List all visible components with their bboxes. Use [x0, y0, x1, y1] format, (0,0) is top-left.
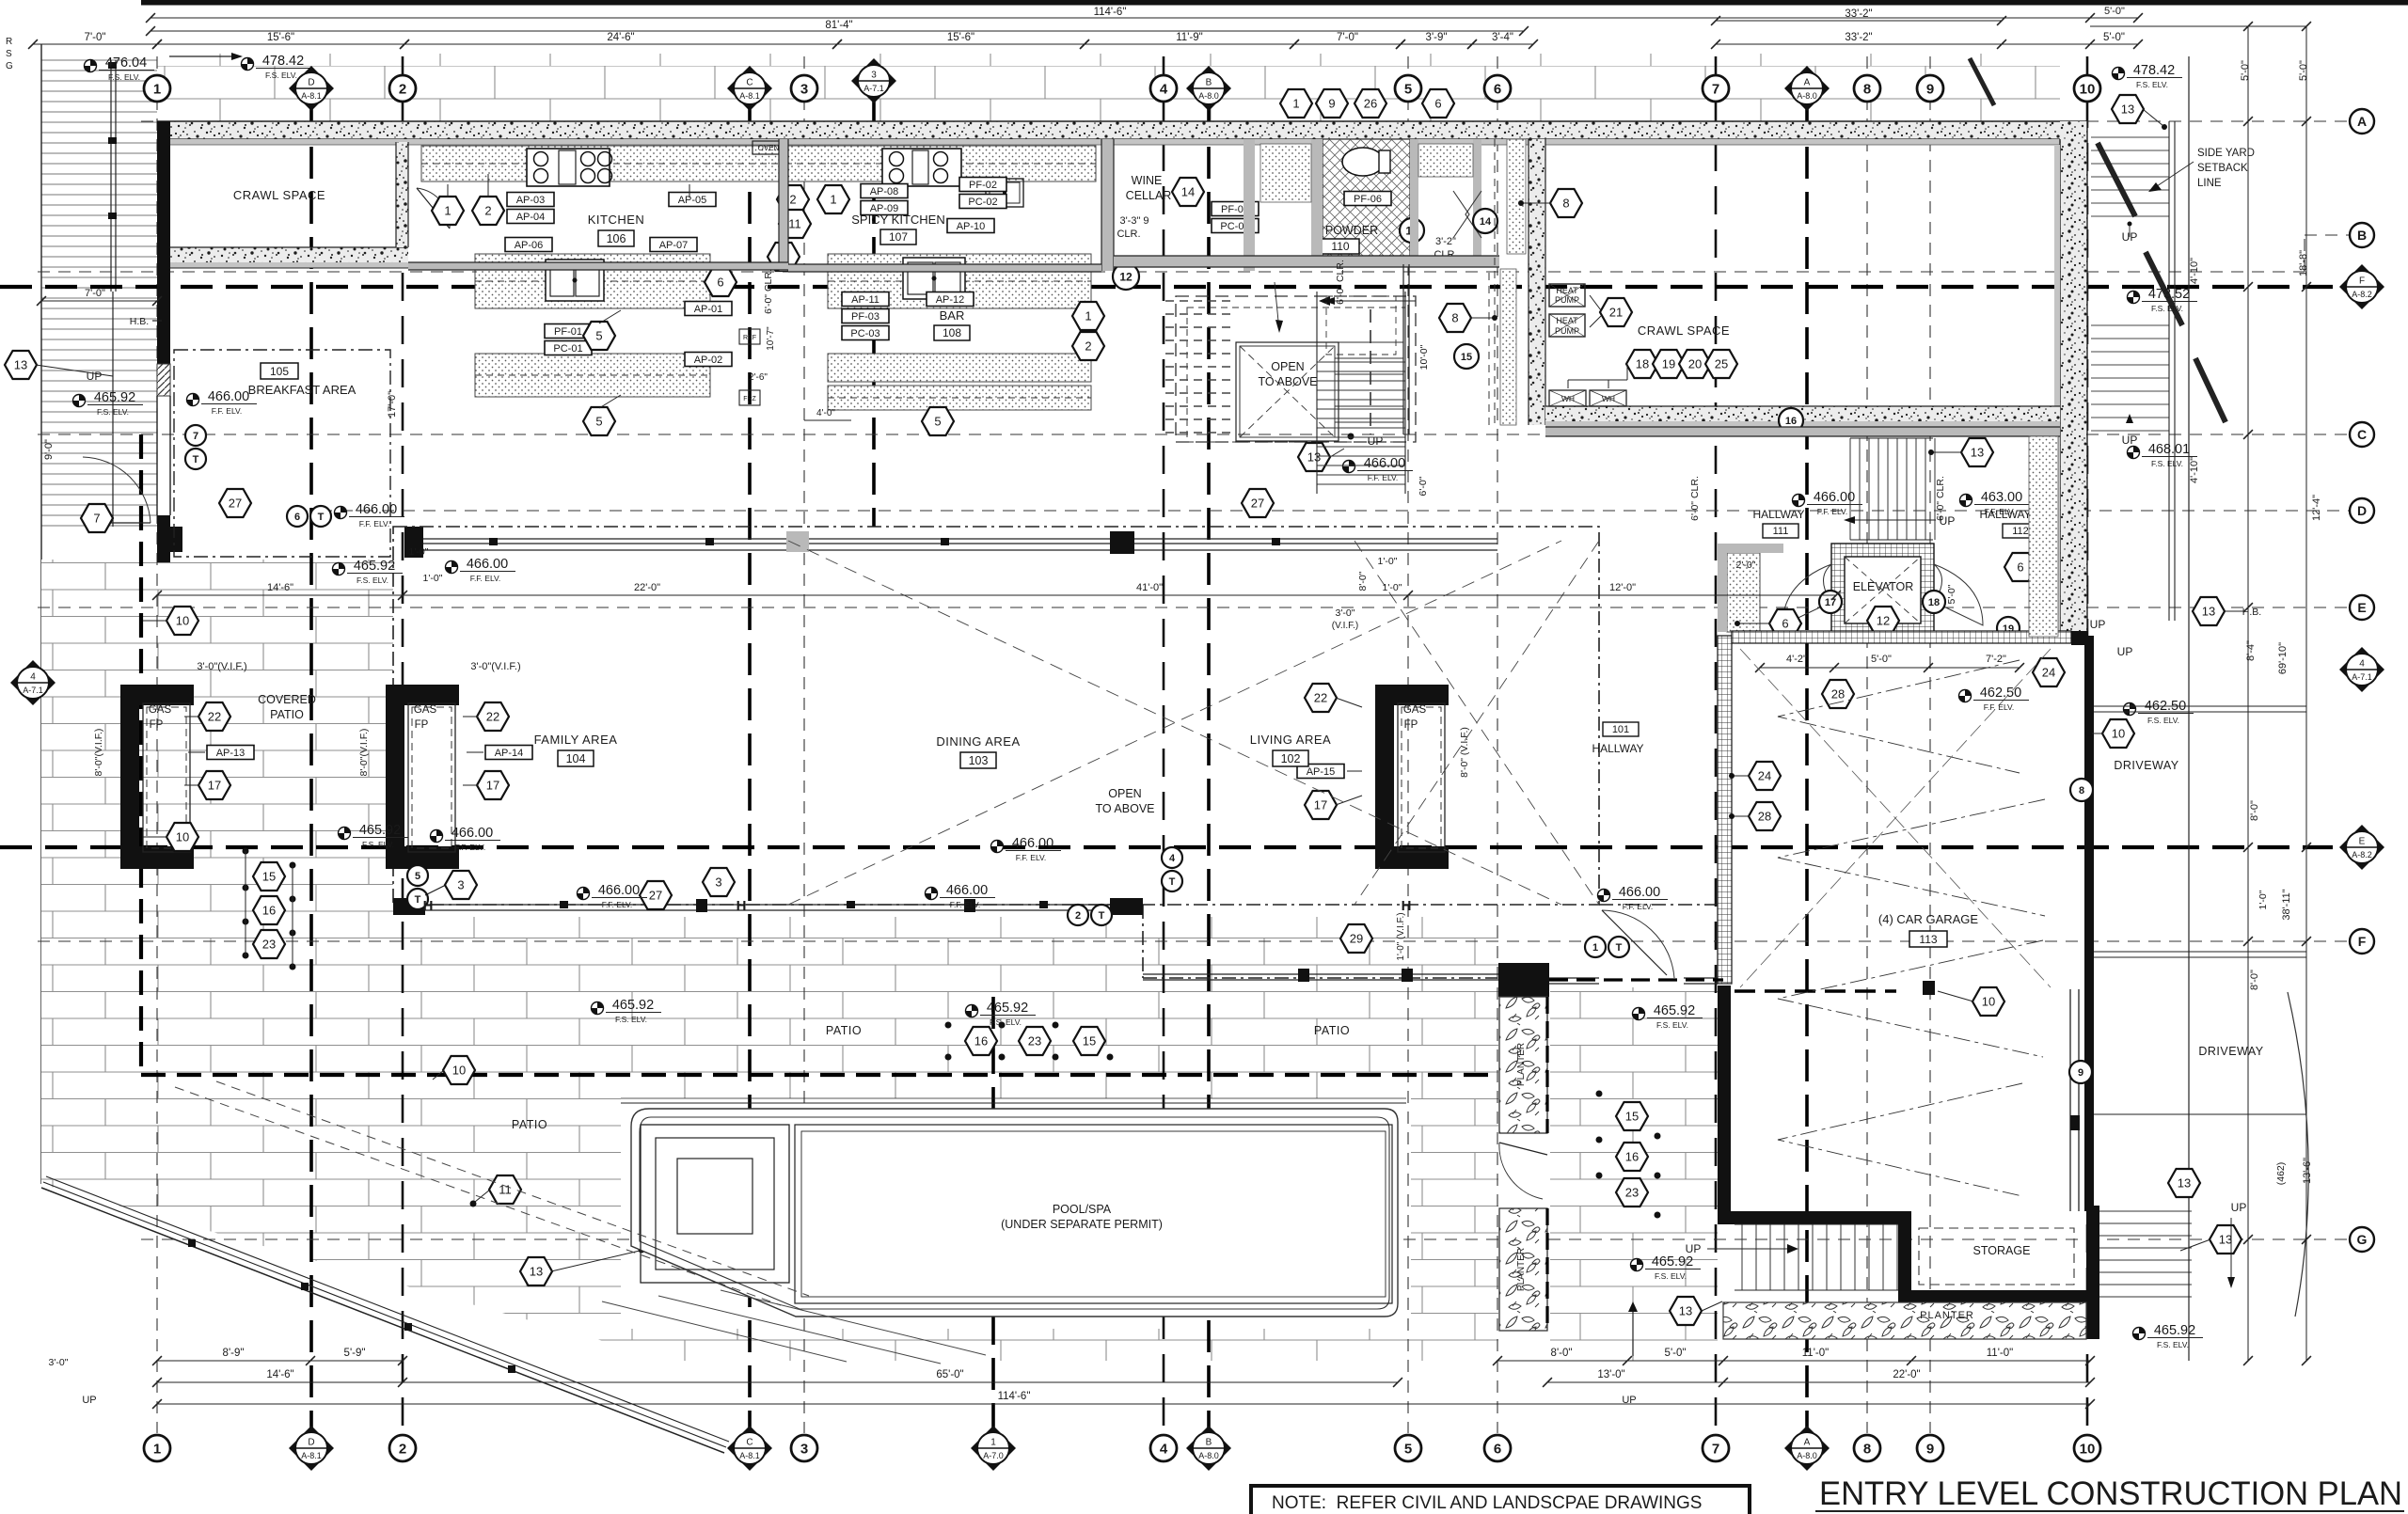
svg-text:AP-12: AP-12 — [936, 294, 965, 306]
svg-text:5'-0": 5'-0" — [1871, 654, 1892, 665]
svg-text:7'-2": 7'-2" — [1986, 654, 2006, 665]
hex keynote 21 — [1600, 298, 1632, 326]
wall stub SE — [1549, 977, 1599, 979]
svg-text:7: 7 — [1712, 82, 1719, 98]
planter column top — [1499, 997, 1547, 1133]
patio hex chain — [965, 1027, 997, 1055]
planter heavy dash boundary — [1545, 997, 1548, 1133]
svg-text:22: 22 — [208, 710, 221, 724]
fp3 keynotes — [1305, 684, 1337, 712]
svg-text:33'-2": 33'-2" — [1845, 8, 1872, 20]
svg-text:466.00: 466.00 — [1814, 490, 1855, 505]
black column SE living — [1110, 531, 1134, 554]
elev 465.92 patio1 — [592, 998, 662, 1024]
entry door SE — [1602, 910, 1674, 978]
svg-text:AP-13: AP-13 — [216, 748, 246, 759]
svg-text:3'-4": 3'-4" — [1492, 32, 1513, 43]
section line E/A-8.2 (horizontal) — [0, 845, 2333, 849]
keynote boxes PF-01/PC-01 — [545, 324, 592, 339]
svg-text:F: F — [2359, 276, 2365, 287]
svg-text:S: S — [6, 49, 12, 59]
svg-text:7: 7 — [193, 431, 198, 442]
svg-text:112: 112 — [2012, 526, 2029, 537]
fp1 keynotes — [198, 702, 230, 731]
svg-text:10: 10 — [2080, 1442, 2096, 1458]
svg-text:3: 3 — [800, 82, 808, 98]
grid bubble 2 top — [389, 75, 416, 102]
svg-text:24: 24 — [1758, 769, 1771, 783]
garage left wall black — [1718, 986, 1731, 1222]
svg-text:F.F. ELV.: F.F. ELV. — [1623, 902, 1654, 911]
svg-text:1: 1 — [830, 193, 836, 207]
grid row G — [141, 1238, 2349, 1240]
section line B/A-8.0 (vertical) — [1207, 102, 1211, 1433]
svg-text:UP: UP — [2231, 1201, 2247, 1214]
dashed grading diagonals — [175, 1087, 781, 1305]
elev 465.92 mid-left — [333, 559, 404, 585]
svg-text:4: 4 — [1160, 1442, 1168, 1458]
svg-text:9: 9 — [2078, 1067, 2083, 1079]
hex 3b mid — [703, 868, 735, 896]
svg-text:5'-9": 5'-9" — [344, 1348, 366, 1359]
svg-text:5'-0": 5'-0" — [2298, 60, 2309, 81]
svg-text:466.00: 466.00 — [451, 826, 493, 841]
grid line 5 (vertical) — [1407, 56, 1409, 1433]
svg-text:5: 5 — [595, 329, 602, 343]
svg-text:13: 13 — [2219, 1233, 2232, 1247]
living area lower boundary — [1142, 905, 1144, 978]
svg-text:10: 10 — [2080, 82, 2096, 98]
svg-text:AP-08: AP-08 — [870, 186, 899, 197]
hex keynote 6b (hall right) — [2004, 553, 2036, 581]
storage bottom wall black — [1898, 1290, 2099, 1302]
grid bubble 5 top — [1395, 75, 1421, 102]
elevator X — [1845, 557, 1921, 623]
svg-text:9: 9 — [1926, 1442, 1934, 1458]
svg-text:478.42: 478.42 — [262, 54, 304, 69]
svg-text:114'-6": 114'-6" — [1094, 7, 1127, 18]
grid bubble 1 top — [144, 75, 170, 102]
svg-text:2'-6": 2'-6" — [749, 372, 768, 383]
svg-text:F.S. ELV.: F.S. ELV. — [108, 72, 140, 82]
left exterior wall black upper — [157, 121, 170, 364]
pool outer line 1 — [631, 1109, 1398, 1317]
hex chain right patio — [1616, 1102, 1648, 1130]
svg-text:D: D — [2357, 503, 2367, 518]
svg-text:5'-0": 5'-0" — [2104, 6, 2125, 17]
keynote circles 7 T — [185, 425, 206, 446]
svg-text:3: 3 — [800, 1442, 808, 1458]
svg-text:478.42: 478.42 — [2133, 63, 2175, 78]
grid bubble 3 bottom — [791, 1435, 817, 1461]
svg-text:17: 17 — [208, 779, 221, 793]
svg-text:CRAWL SPACE: CRAWL SPACE — [233, 188, 325, 202]
room label LIVING AREA — [1250, 733, 1331, 766]
spicy kitchen sink top — [986, 179, 1023, 207]
svg-text:465.92: 465.92 — [94, 390, 135, 405]
garage chevrons — [1778, 660, 2045, 1196]
spicy south sink — [903, 258, 965, 299]
hex 29 — [1340, 924, 1372, 953]
svg-text:16: 16 — [1625, 1150, 1639, 1164]
powder floor tile — [1323, 139, 1410, 256]
row marker C — [2350, 422, 2374, 447]
grid bubble 7 top — [1703, 75, 1729, 102]
svg-text:TO ABOVE: TO ABOVE — [1096, 802, 1155, 815]
svg-text:A-8.2: A-8.2 — [2352, 850, 2372, 860]
note box — [1251, 1486, 1750, 1514]
svg-text:FRZ: FRZ — [743, 396, 756, 402]
svg-text:A-8.1: A-8.1 — [739, 91, 760, 101]
section line C/A-8.1 (vertical) — [748, 102, 752, 1433]
svg-text:3'-0"(V.I.F.): 3'-0"(V.I.F.) — [470, 661, 520, 672]
hex 13 hallway right — [1961, 438, 1993, 466]
keynote boxes AP-01/AP-02 — [685, 302, 732, 316]
elev 478.42 right — [2113, 63, 2183, 89]
svg-text:11'-0": 11'-0" — [1802, 1348, 1829, 1359]
svg-text:ENTRY LEVEL CONSTRUCTION PLAN: ENTRY LEVEL CONSTRUCTION PLAN — [1819, 1475, 2402, 1512]
elev 466.00 breakfast — [187, 389, 258, 416]
hex keynote 28 — [1822, 680, 1854, 708]
stair arrow — [1328, 300, 1416, 302]
bottom dim row1 right — [1497, 1360, 2090, 1362]
svg-text:6'-0" CLR.: 6'-0" CLR. — [763, 269, 774, 314]
side yard edge lines — [2168, 121, 2170, 621]
open-above X diagonals — [788, 541, 1561, 905]
svg-text:F.S. ELV.: F.S. ELV. — [265, 71, 297, 80]
svg-text:D: D — [308, 78, 314, 88]
hex 13 top right — [2112, 95, 2144, 123]
svg-text:114'-6": 114'-6" — [998, 1391, 1031, 1402]
grid row F — [38, 940, 2349, 942]
heavy dash living south — [1549, 978, 1723, 981]
wall kitchen/spicy — [779, 139, 788, 271]
svg-text:27: 27 — [229, 497, 242, 511]
elev pair family south — [339, 823, 409, 849]
section line D/A-8.1 (vertical) — [309, 102, 313, 1433]
svg-text:3'-0": 3'-0" — [1336, 607, 1355, 619]
svg-text:13: 13 — [1679, 1304, 1692, 1318]
svg-text:FAMILY AREA: FAMILY AREA — [534, 733, 618, 747]
arrow to 478 — [169, 55, 233, 57]
keynote box AP-05 — [669, 193, 716, 207]
svg-text:65'-0": 65'-0" — [936, 1369, 963, 1380]
grid row D — [320, 510, 2349, 512]
svg-text:476.04: 476.04 — [105, 55, 147, 71]
planter gate — [1499, 1143, 1547, 1155]
elev 478.42 top — [242, 54, 312, 80]
svg-text:4'-2": 4'-2" — [1786, 654, 1807, 665]
svg-text:(V.I.F.): (V.I.F.) — [1332, 621, 1359, 631]
kitchen cooktop — [527, 149, 610, 186]
keynote circle 15 — [1454, 344, 1479, 369]
storage inner dashed — [1919, 1228, 2074, 1285]
patio boundary heavy dash horizontal — [141, 1073, 1497, 1077]
elev 465.92 up — [73, 390, 144, 417]
svg-text:13'-0": 13'-0" — [1597, 1369, 1624, 1380]
svg-text:A: A — [1804, 78, 1811, 88]
hex 10 left a — [166, 607, 198, 635]
bar lower counter — [828, 354, 1091, 382]
svg-text:17: 17 — [1314, 798, 1327, 812]
svg-text:TO ABOVE: TO ABOVE — [1259, 375, 1318, 388]
svg-text:F.S. ELV.: F.S. ELV. — [615, 1015, 647, 1024]
svg-text:41'-0": 41'-0" — [1136, 582, 1163, 593]
closet stipple — [1727, 553, 1760, 632]
section line 3/A-7.1 (vertical) — [872, 102, 876, 527]
svg-text:A-8.0: A-8.0 — [1198, 91, 1219, 101]
svg-text:AP-01: AP-01 — [694, 304, 723, 315]
grid bubble 8 bottom — [1854, 1435, 1880, 1461]
svg-text:LINE: LINE — [2197, 178, 2222, 189]
right wall inner gray face — [2054, 145, 2060, 639]
dim row 2b (33-2) — [1716, 20, 2002, 22]
svg-text:DINING AREA: DINING AREA — [936, 734, 1020, 749]
svg-text:28: 28 — [1831, 687, 1845, 702]
svg-text:AP-04: AP-04 — [516, 212, 546, 223]
svg-text:4: 4 — [2359, 659, 2365, 670]
hex keynote 28b — [1749, 802, 1781, 830]
hex keynote 14 (wine) — [1172, 178, 1204, 206]
hex keynote 13 (powder) — [1400, 218, 1424, 243]
elevator shaft walls — [1831, 544, 1934, 637]
main area room dashed boundary — [393, 527, 1599, 905]
svg-text:G: G — [2357, 1232, 2368, 1247]
svg-text:C: C — [746, 1438, 752, 1448]
left exterior wall black lower — [157, 515, 170, 562]
section marker B/A-8.0 bottom — [1186, 1426, 1231, 1471]
svg-text:10'-0": 10'-0" — [1418, 344, 1430, 370]
storage right wall black — [2086, 1206, 2099, 1302]
hex keynote 8b — [1439, 304, 1471, 332]
svg-text:1: 1 — [444, 204, 451, 218]
room label KITCHEN — [588, 213, 645, 246]
svg-text:POWDER: POWDER — [1325, 224, 1378, 237]
svg-text:PLANTER: PLANTER — [1516, 1248, 1527, 1291]
keynote circles 2 T bottom — [1068, 905, 1088, 925]
svg-text:SPICY KITCHEN: SPICY KITCHEN — [851, 213, 944, 227]
hex keynote 11 (spicy left) — [779, 210, 811, 238]
svg-text:HEAT: HEAT — [1556, 316, 1578, 325]
svg-text:13: 13 — [530, 1265, 543, 1279]
svg-text:CELLAR: CELLAR — [1126, 189, 1172, 202]
svg-text:8: 8 — [1863, 1442, 1871, 1458]
keynote circle 14b — [1473, 209, 1497, 233]
hex keynote 10 (driveway) — [2102, 719, 2134, 748]
svg-text:PF-06: PF-06 — [1354, 194, 1382, 205]
hex keynote 5 (island) — [583, 322, 615, 350]
kitchen top counter — [421, 146, 779, 181]
svg-text:3'-9": 3'-9" — [1426, 32, 1448, 43]
hex 27 mid — [640, 881, 672, 909]
svg-text:21: 21 — [1609, 306, 1623, 320]
section marker B/A-8.0 top — [1186, 66, 1231, 111]
svg-text:104: 104 — [566, 752, 586, 765]
svg-text:5: 5 — [1404, 82, 1412, 98]
hex keynote 6 (hall) — [1769, 609, 1801, 638]
svg-text:POOL/SPA: POOL/SPA — [1053, 1203, 1112, 1216]
patio bricks bottom — [41, 917, 1498, 1361]
hex keynote 24b — [1749, 762, 1781, 790]
svg-text:3: 3 — [715, 875, 721, 890]
WH boxes — [1549, 390, 1586, 406]
svg-text:3: 3 — [871, 71, 877, 81]
svg-text:E: E — [2357, 600, 2366, 615]
svg-text:6'-0": 6'-0" — [1418, 476, 1429, 496]
svg-text:F.F. ELV.: F.F. ELV. — [359, 519, 390, 528]
main north window wall — [420, 538, 1497, 540]
svg-text:8: 8 — [1562, 197, 1569, 211]
svg-text:F.F. ELV.: F.F. ELV. — [455, 843, 486, 852]
svg-text:DRIVEWAY: DRIVEWAY — [2114, 759, 2178, 772]
svg-text:26: 26 — [1364, 97, 1377, 111]
svg-text:12: 12 — [1119, 270, 1133, 283]
svg-text:(UNDER SEPARATE PERMIT): (UNDER SEPARATE PERMIT) — [1001, 1218, 1163, 1231]
fp2 keynotes — [477, 702, 509, 731]
patio bricks left — [41, 560, 393, 917]
spa outer — [641, 1125, 789, 1283]
elev 476.04 — [85, 55, 155, 82]
svg-text:8'-0": 8'-0" — [1551, 1348, 1573, 1359]
svg-text:BAR: BAR — [940, 308, 965, 323]
svg-text:A-8.1: A-8.1 — [739, 1451, 760, 1460]
svg-text:1'-0": 1'-0" — [409, 546, 429, 558]
svg-text:GAS: GAS — [1403, 704, 1427, 716]
section marker 4/A-7.1 right — [2339, 647, 2384, 692]
svg-text:F.S. ELV.: F.S. ELV. — [356, 576, 388, 585]
stair treads — [1165, 301, 1236, 433]
svg-text:A-8.0: A-8.0 — [1797, 1451, 1817, 1460]
svg-text:C: C — [2357, 427, 2367, 442]
right exterior wall (concrete) — [2060, 121, 2087, 639]
grid line 10 (vertical) — [2086, 56, 2089, 1433]
stairs at garage south — [1742, 1224, 1897, 1290]
grid line 8 (vertical) — [1866, 56, 1868, 1433]
garage cross thin lines — [1740, 649, 2051, 987]
grid bubble 7 bottom — [1703, 1435, 1729, 1461]
svg-text:T: T — [415, 894, 421, 906]
row marker D — [2350, 498, 2374, 523]
svg-text:33'-2": 33'-2" — [1845, 32, 1872, 43]
svg-text:DRIVEWAY: DRIVEWAY — [2198, 1045, 2263, 1058]
heat pump boxes — [1549, 284, 1585, 307]
left wall door hatch — [157, 364, 170, 396]
svg-text:R: R — [6, 37, 12, 47]
patio boundary heavy dash vertical — [139, 434, 143, 1075]
gas fireplace 1 — [120, 685, 194, 705]
svg-text:10: 10 — [2112, 727, 2125, 741]
grid bubble 6 top — [1484, 75, 1511, 102]
pool diagonals — [721, 1290, 986, 1355]
svg-text:5: 5 — [415, 871, 420, 882]
kitchen leader lines — [447, 184, 449, 197]
room label DINING AREA — [936, 734, 1020, 768]
svg-text:9: 9 — [1926, 82, 1934, 98]
svg-text:F.S. ELV.: F.S. ELV. — [362, 840, 394, 849]
svg-text:AP-07: AP-07 — [659, 240, 689, 251]
svg-text:AP-15: AP-15 — [1307, 766, 1336, 778]
room label HALLWAY 101 — [1603, 722, 1639, 736]
svg-text:KITCHEN: KITCHEN — [588, 213, 645, 227]
grid bubble 4 bottom — [1150, 1435, 1177, 1461]
svg-text:B: B — [1206, 78, 1212, 88]
svg-text:5'-0": 5'-0" — [1665, 1348, 1687, 1359]
grid bubble 9 bottom — [1917, 1435, 1943, 1461]
dim row 2c (5-0) — [2090, 17, 2138, 19]
svg-text:8: 8 — [2079, 785, 2084, 796]
svg-text:2: 2 — [399, 82, 406, 98]
svg-text:2: 2 — [1075, 910, 1081, 922]
section marker C/A-8.1 bottom — [727, 1426, 772, 1471]
svg-text:22: 22 — [1314, 691, 1327, 705]
svg-text:PATIO: PATIO — [1314, 1024, 1350, 1037]
svg-text:1'-0" (V.I.F.): 1'-0" (V.I.F.) — [1396, 912, 1406, 960]
svg-text:2: 2 — [399, 1442, 406, 1458]
svg-text:1: 1 — [1292, 97, 1299, 111]
svg-text:A-7.1: A-7.1 — [23, 686, 43, 695]
svg-text:13: 13 — [2121, 103, 2134, 117]
hex 15 16 23 left — [253, 862, 285, 891]
svg-text:6: 6 — [1782, 617, 1788, 631]
svg-text:6: 6 — [1494, 1442, 1501, 1458]
svg-text:F.F. ELV.: F.F. ELV. — [1817, 507, 1848, 516]
row marker A — [2350, 109, 2374, 134]
section marker 4/A-7.1 left — [10, 660, 55, 705]
svg-text:HALLWAY: HALLWAY — [1592, 742, 1643, 755]
svg-text:E: E — [2359, 837, 2366, 847]
garage left wall mesh — [1718, 636, 1732, 984]
svg-text:REF: REF — [743, 335, 756, 341]
grid line 7 (vertical) — [1715, 56, 1718, 1433]
planter south — [1723, 1302, 2086, 1339]
section line 1/A-7.0 (vertical) — [991, 997, 995, 1433]
svg-text:18: 18 — [1636, 357, 1649, 371]
main south window wall — [393, 904, 1143, 906]
section marker E/A-8.2 right — [2339, 825, 2384, 870]
svg-text:111: 111 — [1773, 526, 1789, 537]
svg-text:1'-0": 1'-0" — [2257, 890, 2269, 909]
wall below powder gray — [1114, 256, 1499, 267]
svg-text:11'-9": 11'-9" — [1176, 32, 1202, 43]
svg-text:AP-02: AP-02 — [694, 355, 723, 366]
svg-text:4'-10": 4'-10" — [2189, 258, 2200, 284]
svg-text:5: 5 — [1404, 1442, 1412, 1458]
svg-text:WINE: WINE — [1132, 174, 1163, 187]
grid line 3 (vertical) — [803, 56, 805, 1433]
black column 2 — [404, 527, 423, 558]
svg-text:463.00: 463.00 — [1981, 490, 2022, 505]
svg-text:A-8.1: A-8.1 — [301, 1451, 322, 1460]
diag stroke 3 — [2195, 358, 2226, 422]
svg-text:1'-0": 1'-0" — [1378, 556, 1398, 567]
svg-text:3'-0": 3'-0" — [49, 1357, 69, 1368]
top wall inner gray face — [170, 139, 2060, 145]
dim row 2 (81-4) — [150, 30, 1524, 32]
svg-text:23: 23 — [1028, 1034, 1041, 1049]
svg-text:F.F. ELV.: F.F. ELV. — [950, 900, 981, 909]
spicy kitchen top counter — [785, 146, 1096, 181]
svg-text:8'-0": 8'-0" — [2249, 800, 2260, 821]
section marker C/A-8.1 top — [727, 66, 772, 111]
row marker B — [2350, 223, 2374, 247]
svg-text:F.F. ELV.: F.F. ELV. — [602, 900, 633, 909]
grid bubble 6 bottom — [1484, 1435, 1511, 1461]
svg-text:AP-03: AP-03 — [516, 195, 546, 206]
kitchen lower counter — [475, 354, 710, 397]
black column breakfast SW — [157, 527, 182, 552]
svg-text:5: 5 — [934, 415, 941, 429]
svg-text:466.00: 466.00 — [598, 883, 640, 898]
